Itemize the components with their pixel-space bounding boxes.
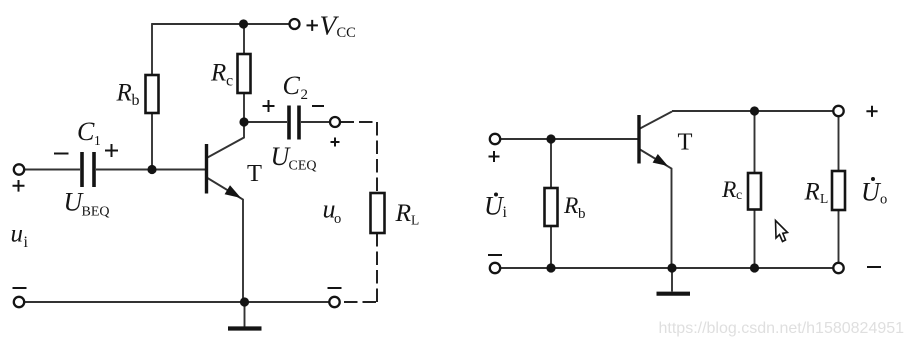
svg-text:i: i — [503, 204, 508, 221]
svg-text:o: o — [334, 211, 341, 227]
svg-text:R: R — [395, 198, 412, 227]
svg-text:R: R — [721, 177, 736, 203]
svg-text:b: b — [132, 92, 140, 109]
svg-text:C: C — [77, 117, 95, 146]
svg-text:C: C — [283, 71, 301, 100]
svg-text:R: R — [116, 80, 132, 107]
svg-text:L: L — [411, 213, 419, 228]
svg-text:CEQ: CEQ — [289, 159, 317, 174]
svg-text:b: b — [578, 206, 586, 222]
svg-text:c: c — [226, 73, 233, 90]
svg-text:1: 1 — [94, 133, 101, 148]
svg-text:BEQ: BEQ — [82, 205, 110, 220]
svg-text:L: L — [820, 191, 828, 206]
svg-text:T: T — [678, 129, 693, 156]
svg-text:CC: CC — [337, 25, 356, 41]
svg-text:U: U — [861, 178, 882, 207]
svg-text:https://blog.csdn.net/h1580824: https://blog.csdn.net/h1580824951 — [659, 320, 905, 337]
svg-text:R: R — [804, 179, 820, 206]
svg-text:R: R — [563, 193, 578, 219]
svg-text:o: o — [880, 192, 887, 208]
svg-text:c: c — [736, 188, 742, 203]
svg-text:u: u — [11, 221, 24, 248]
svg-text:2: 2 — [301, 87, 309, 103]
svg-text:T: T — [247, 160, 262, 187]
svg-text:R: R — [210, 59, 226, 86]
svg-text:i: i — [24, 234, 29, 251]
